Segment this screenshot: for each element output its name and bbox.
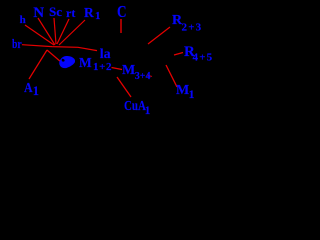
svg-text:3+4: 3+4 [135,71,151,82]
svg-text:M: M [176,83,189,98]
svg-text:N: N [33,5,44,21]
wire leader C [120,19,122,33]
wire leader CuA1 [117,77,131,97]
wire leader Pt [57,19,69,44]
wire leader N [38,18,55,45]
wire leader Sc [54,18,56,44]
svg-text:1+2: 1+2 [93,61,112,73]
svg-text:1: 1 [145,105,151,117]
svg-text:2+3: 2+3 [182,22,203,34]
svg-text:rt: rt [66,6,75,20]
node arculus blob [59,56,75,68]
svg-text:1: 1 [189,87,195,101]
wire leader h [25,25,54,45]
wire leader br to 1a (long) [22,45,97,51]
svg-text:R: R [84,5,94,20]
wire leader blob [47,50,61,62]
wire leader M1 [166,65,177,87]
svg-text:br: br [12,38,22,52]
wire leader R1 [59,20,85,45]
wire leader M3+4 tail [147,75,152,77]
svg-text:1: 1 [33,84,39,98]
wire leader M1+2 to M3+4 [112,68,123,70]
svg-text:A: A [24,79,33,95]
svg-text:C: C [117,4,127,22]
wire leader R2+3 [148,27,170,44]
svg-text:Sc: Sc [49,4,62,19]
svg-text:1: 1 [95,10,101,22]
svg-text:CuA: CuA [124,98,146,114]
svg-text:4+5: 4+5 [193,52,214,64]
svg-text:M: M [79,55,92,70]
svg-text:h: h [20,14,26,26]
wire leader R4+5 [174,53,183,56]
wire leader A1 [29,50,47,79]
svg-text:M: M [122,63,135,78]
